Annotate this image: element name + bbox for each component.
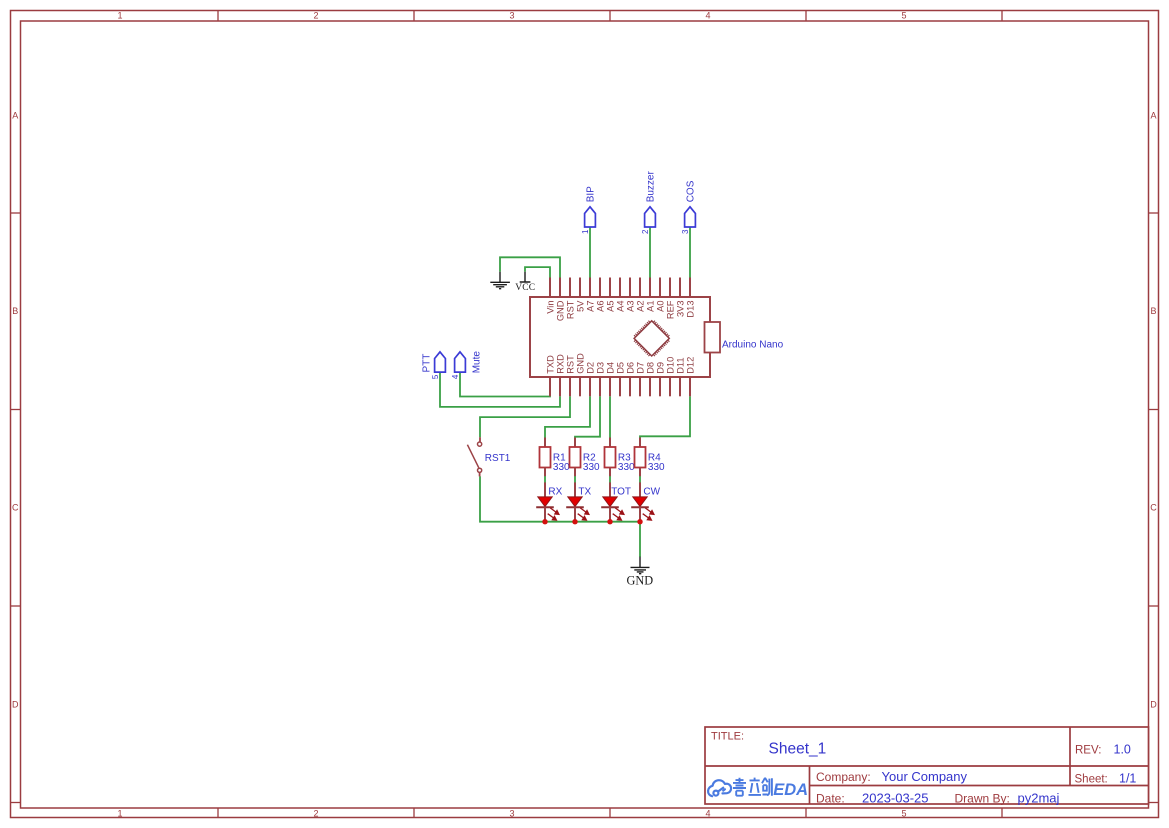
svg-text:1/1: 1/1 xyxy=(1119,772,1136,786)
junction dot at LED CW cathode xyxy=(637,519,642,524)
svg-text:Company:: Company: xyxy=(816,770,871,784)
pin TXD (bottom 1) xyxy=(549,377,551,396)
pin D3 (bottom 6) xyxy=(599,377,601,396)
svg-text:Vin: Vin xyxy=(545,301,555,314)
svg-text:A5: A5 xyxy=(605,301,615,312)
wire Mute flag to TXD pin xyxy=(460,372,550,397)
port flag Buzzer xyxy=(645,207,656,227)
svg-text:RST1: RST1 xyxy=(485,453,511,464)
port flag BIP xyxy=(585,207,596,227)
svg-text:C: C xyxy=(1150,503,1157,513)
wire switch to LED cathode bus xyxy=(480,476,640,522)
resistor R3 330 xyxy=(609,438,611,448)
svg-text:D8: D8 xyxy=(645,362,655,374)
svg-text:3: 3 xyxy=(509,808,514,818)
arduino nano MCU diamond symbol xyxy=(634,321,669,356)
LED TX xyxy=(574,482,576,497)
svg-text:D4: D4 xyxy=(605,362,615,374)
svg-text:4: 4 xyxy=(451,374,460,379)
pin A7 (top 5) xyxy=(589,278,591,298)
svg-text:Mute: Mute xyxy=(471,351,482,374)
svg-text:COS: COS xyxy=(686,180,697,202)
wire R3 to LED xyxy=(609,476,611,483)
GND symbol (top left) xyxy=(490,272,510,289)
svg-text:2: 2 xyxy=(313,11,318,21)
svg-text:A0: A0 xyxy=(655,301,665,312)
wire R4 to LED xyxy=(639,476,641,483)
junction dot at LED TX cathode xyxy=(572,519,577,524)
wire PTT flag to RXD pin xyxy=(440,372,560,407)
svg-text:RX: RX xyxy=(548,487,562,498)
pin 3V3 (top 14) xyxy=(679,278,681,298)
svg-text:D10: D10 xyxy=(665,357,675,374)
pin GND (bottom 4) xyxy=(579,377,581,396)
svg-text:CW: CW xyxy=(643,487,660,498)
svg-text:VCC: VCC xyxy=(515,283,535,293)
svg-text:TX: TX xyxy=(578,487,591,498)
svg-text:3V3: 3V3 xyxy=(675,301,685,318)
title block border xyxy=(705,727,1149,804)
VCC power symbol xyxy=(520,272,531,282)
wire GND symbol to GND pin xyxy=(500,257,560,277)
svg-text:5: 5 xyxy=(901,808,906,818)
svg-text:TITLE:: TITLE: xyxy=(711,731,744,743)
svg-text:D7: D7 xyxy=(635,362,645,374)
pin D9 (bottom 12) xyxy=(659,377,661,396)
pin RST (top 3) xyxy=(569,278,571,298)
wire D4 pin to R3 xyxy=(609,396,611,438)
LED RX xyxy=(544,482,546,497)
EDA logo cloud icon xyxy=(708,780,731,796)
svg-text:330: 330 xyxy=(648,462,665,473)
resistor R2 330 xyxy=(574,438,576,448)
svg-text:REF: REF xyxy=(665,300,675,319)
svg-text:TOT: TOT xyxy=(611,487,631,498)
svg-text:1: 1 xyxy=(117,808,122,818)
pin D2 (bottom 5) xyxy=(589,377,591,396)
svg-text:D2: D2 xyxy=(585,362,595,374)
svg-text:5: 5 xyxy=(431,374,440,379)
svg-text:1: 1 xyxy=(581,229,590,234)
svg-text:B: B xyxy=(1150,306,1156,316)
wire D2 pin to R1 xyxy=(545,396,590,438)
LED TOT xyxy=(609,482,611,497)
svg-text:Sheet:: Sheet: xyxy=(1075,774,1108,786)
svg-text:GND: GND xyxy=(555,300,565,321)
pin D13 (top 15) xyxy=(689,278,691,298)
EDA logo chinese characters (stylised) xyxy=(733,778,772,796)
pin 5V (top 4) xyxy=(579,278,581,298)
svg-text:RST: RST xyxy=(565,300,575,319)
svg-text:TXD: TXD xyxy=(545,355,555,374)
svg-text:GND: GND xyxy=(575,353,585,374)
svg-text:4: 4 xyxy=(705,808,710,818)
svg-text:1.0: 1.0 xyxy=(1114,743,1131,757)
svg-text:3: 3 xyxy=(509,11,514,21)
pin A0 (top 12) xyxy=(659,278,661,298)
svg-text:2: 2 xyxy=(313,808,318,818)
port flag PTT xyxy=(435,352,446,372)
svg-text:4: 4 xyxy=(705,11,710,21)
svg-text:REV:: REV: xyxy=(1075,745,1101,757)
pin REF (top 13) xyxy=(669,278,671,298)
svg-text:A1: A1 xyxy=(645,301,655,312)
svg-text:A2: A2 xyxy=(635,301,645,312)
pin D7 (bottom 10) xyxy=(639,377,641,396)
svg-text:GND: GND xyxy=(626,574,653,588)
svg-text:330: 330 xyxy=(583,462,600,473)
arduino nano USB connector xyxy=(705,322,721,353)
svg-text:Sheet_1: Sheet_1 xyxy=(769,741,827,758)
svg-text:A3: A3 xyxy=(625,301,635,312)
svg-text:RST: RST xyxy=(565,355,575,374)
svg-text:3: 3 xyxy=(681,229,690,234)
svg-text:A7: A7 xyxy=(585,301,595,312)
title block dividers xyxy=(705,765,1149,767)
pin A6 (top 6) xyxy=(599,278,601,298)
svg-text:Your Company: Your Company xyxy=(882,769,968,784)
pin D5 (bottom 8) xyxy=(619,377,621,396)
wire BIP flag to A7 pin xyxy=(589,227,591,278)
wire D12 pin to R4 xyxy=(640,396,690,438)
svg-text:BIP: BIP xyxy=(586,186,597,202)
svg-text:D9: D9 xyxy=(655,362,665,374)
wire R2 to LED xyxy=(574,476,576,483)
wire CW LED junction to GND xyxy=(639,522,641,557)
port flag COS xyxy=(685,207,696,227)
pin RST (bottom 3) xyxy=(569,377,571,396)
svg-text:D: D xyxy=(1150,700,1157,710)
pin D12 (bottom 15) xyxy=(689,377,691,396)
resistor R1 330 xyxy=(544,438,546,448)
svg-text:C: C xyxy=(12,503,19,513)
svg-text:Buzzer: Buzzer xyxy=(646,171,657,203)
wire D3 pin to R2 xyxy=(575,396,600,438)
pin D11 (bottom 14) xyxy=(679,377,681,396)
junction dot at LED RX cathode xyxy=(542,519,547,524)
pin A3 (top 9) xyxy=(629,278,631,298)
svg-text:D13: D13 xyxy=(685,301,695,318)
svg-text:5V: 5V xyxy=(575,300,585,312)
wire Buzzer flag to A1 pin xyxy=(649,227,651,278)
svg-text:A: A xyxy=(1150,111,1156,121)
svg-text:2023-03-25: 2023-03-25 xyxy=(862,791,929,806)
pin A5 (top 7) xyxy=(609,278,611,298)
svg-text:EDA: EDA xyxy=(773,781,808,799)
pin Vin (top 1) xyxy=(549,278,551,298)
svg-text:D11: D11 xyxy=(675,357,685,373)
port flag Mute xyxy=(455,352,466,372)
wire VCC to Vin pin xyxy=(525,267,550,277)
pin D6 (bottom 9) xyxy=(629,377,631,396)
svg-text:D5: D5 xyxy=(615,362,625,374)
svg-text:Drawn By:: Drawn By: xyxy=(955,792,1010,806)
pin D8 (bottom 11) xyxy=(649,377,651,396)
svg-text:330: 330 xyxy=(618,462,635,473)
svg-text:D3: D3 xyxy=(595,362,605,374)
pin A2 (top 10) xyxy=(639,278,641,298)
junction dot at LED TOT cathode xyxy=(607,519,612,524)
wire R1 to LED xyxy=(544,476,546,483)
svg-text:A6: A6 xyxy=(595,301,605,312)
GND symbol (bottom) xyxy=(631,557,650,574)
pin A1 (top 11) xyxy=(649,278,651,298)
pin A4 (top 8) xyxy=(619,278,621,298)
svg-text:RXD: RXD xyxy=(555,354,565,374)
pin D4 (bottom 7) xyxy=(609,377,611,396)
svg-text:D: D xyxy=(12,700,19,710)
svg-text:2: 2 xyxy=(641,229,650,234)
svg-text:PTT: PTT xyxy=(422,354,433,373)
svg-text:Date:: Date: xyxy=(816,792,845,806)
svg-text:330: 330 xyxy=(553,462,570,473)
svg-text:A4: A4 xyxy=(615,301,625,312)
wire RST pin to switch RST1 xyxy=(480,396,570,437)
svg-text:5: 5 xyxy=(901,11,906,21)
LED CW xyxy=(639,482,641,497)
svg-text:A: A xyxy=(12,111,18,121)
arduino nano U1 body xyxy=(530,297,710,377)
svg-text:1: 1 xyxy=(117,11,122,21)
svg-text:B: B xyxy=(12,306,18,316)
svg-text:D6: D6 xyxy=(625,362,635,374)
pin RXD (bottom 2) xyxy=(559,377,561,396)
resistor R4 330 xyxy=(639,438,641,448)
svg-text:Arduino Nano: Arduino Nano xyxy=(722,340,784,351)
wire COS flag to D13 pin xyxy=(689,227,691,278)
pin GND (top 2) xyxy=(559,278,561,298)
switch RST1 xyxy=(467,437,481,476)
svg-text:D12: D12 xyxy=(685,357,695,374)
pin D10 (bottom 13) xyxy=(669,377,671,396)
svg-text:py2maj: py2maj xyxy=(1018,791,1060,806)
